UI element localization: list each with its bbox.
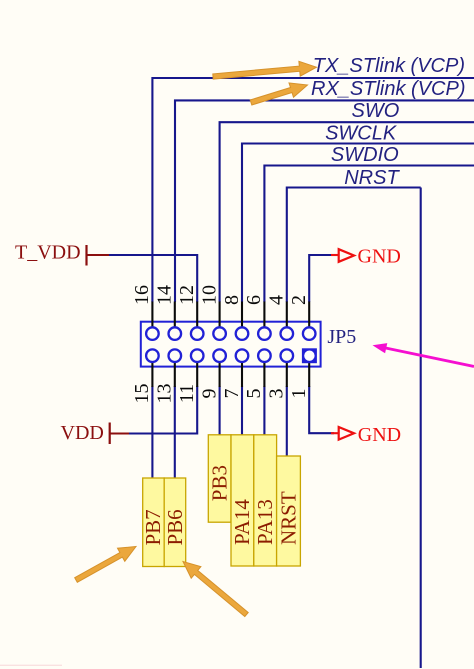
- svg-text:JP5: JP5: [327, 326, 356, 348]
- wire pin 1 to GND: [309, 386, 334, 433]
- port PB3: [208, 435, 232, 522]
- power port T_VDD: [15, 242, 87, 266]
- pin 2 stub: [308, 302, 310, 328]
- svg-text:TX_STlink (VCP): TX_STlink (VCP): [313, 55, 465, 77]
- pin 12 stub: [196, 302, 198, 328]
- annotation arrow to PB7 port: [75, 547, 136, 583]
- wire pin 3 to NRST port: [286, 386, 288, 457]
- pin 7 pad: [236, 349, 249, 362]
- wire VDD red segment: [110, 432, 129, 434]
- svg-text:9: 9: [198, 389, 220, 399]
- port PA13: [253, 435, 277, 566]
- wire T_VDD red segment: [87, 254, 110, 256]
- svg-text:SWO: SWO: [352, 100, 400, 122]
- svg-text:GND: GND: [358, 246, 401, 268]
- pin 10 stub: [219, 302, 221, 328]
- svg-text:14: 14: [154, 285, 176, 305]
- pin 14 pad: [169, 327, 182, 340]
- svg-text:13: 13: [154, 384, 176, 404]
- power port GND (upper): [331, 246, 401, 268]
- svg-text:PB7: PB7: [141, 509, 165, 545]
- faint sheet mark bottom-left: [0, 664, 62, 666]
- svg-text:11: 11: [176, 384, 198, 403]
- svg-text:PB3: PB3: [208, 465, 232, 501]
- pin 15 pad: [146, 349, 159, 362]
- pin 5 pad: [258, 349, 271, 362]
- pin 7 stub: [241, 362, 243, 388]
- svg-text:3: 3: [266, 389, 288, 399]
- annotation arrow (magenta) to JP5: [373, 343, 474, 368]
- svg-text:15: 15: [131, 384, 153, 404]
- port PB6: [163, 478, 187, 567]
- port NRST: [276, 456, 300, 566]
- pin 8 stub: [241, 302, 243, 328]
- pin 10 pad: [213, 327, 226, 340]
- wire net SWCLK to pin 8: [242, 144, 474, 303]
- wire net TX_STlink to pin 16: [152, 78, 474, 302]
- annotation arrow to PB6 port: [183, 562, 248, 617]
- pin 16 pad: [146, 327, 159, 340]
- pin 13 stub: [174, 362, 176, 388]
- pin 5 stub: [263, 362, 265, 388]
- pin 6 stub: [263, 302, 265, 328]
- svg-text:16: 16: [131, 285, 153, 305]
- pin 9 stub: [219, 362, 221, 388]
- pin 9 pad: [213, 349, 226, 362]
- wire pin 15 to PB7 port: [151, 386, 153, 479]
- pin 1 pad (square): [302, 348, 317, 363]
- wire net SWDIO to pin 6: [264, 166, 474, 303]
- wire net RX_STlink to pin 14: [175, 100, 474, 302]
- svg-text:PA13: PA13: [253, 499, 277, 545]
- power port GND (lower): [331, 424, 401, 446]
- wire NRST vertical to sheet bottom: [420, 188, 422, 669]
- wire pin 7 to PA14 port: [241, 386, 243, 436]
- svg-text:SWDIO: SWDIO: [331, 144, 399, 166]
- svg-text:RX_STlink (VCP): RX_STlink (VCP): [311, 78, 465, 100]
- power port VDD: [61, 422, 110, 444]
- svg-text:10: 10: [198, 285, 220, 305]
- pin 13 pad: [169, 349, 182, 362]
- svg-text:VDD: VDD: [61, 422, 104, 444]
- wire pin 5 to PA13 port: [263, 386, 265, 436]
- pin 2 pad: [303, 327, 316, 340]
- svg-text:NRST: NRST: [276, 491, 300, 545]
- pin 3 pad: [281, 349, 294, 362]
- wire net SWO to pin 10: [220, 122, 474, 302]
- port PA14: [230, 435, 254, 566]
- svg-text:1: 1: [288, 389, 310, 399]
- wire T_VDD to pin 12: [109, 255, 197, 302]
- pin 14 stub: [174, 302, 176, 328]
- svg-text:5: 5: [243, 389, 265, 399]
- pin 6 pad: [258, 327, 271, 340]
- svg-text:6: 6: [243, 295, 265, 305]
- svg-text:12: 12: [176, 285, 198, 305]
- pin 4 pad: [281, 327, 294, 340]
- wire pin 2 to GND: [309, 255, 334, 302]
- pin 15 stub: [151, 362, 153, 388]
- pin 3 stub: [286, 362, 288, 388]
- annotation arrow to RX label: [250, 83, 307, 105]
- svg-text:GND: GND: [358, 424, 401, 446]
- svg-text:T_VDD: T_VDD: [15, 242, 81, 264]
- annotation arrow to TX label: [213, 61, 317, 79]
- svg-text:8: 8: [221, 295, 243, 305]
- wire pin 9 to PB3 port: [219, 386, 221, 436]
- wire pin 13 to PB6 port: [174, 386, 176, 479]
- svg-text:PA14: PA14: [230, 499, 254, 545]
- svg-text:SWCLK: SWCLK: [325, 123, 398, 145]
- connector JP5 body: [141, 322, 321, 367]
- pin 11 pad: [191, 349, 204, 362]
- pin 1 stub: [308, 362, 310, 388]
- svg-text:PB6: PB6: [163, 509, 187, 545]
- wire VDD to pin 11: [129, 386, 197, 434]
- wire net NRST to pin 4: [287, 188, 421, 303]
- svg-text:NRST: NRST: [344, 167, 400, 189]
- pin 12 pad: [191, 327, 204, 340]
- svg-text:2: 2: [288, 295, 310, 305]
- pin 4 stub: [286, 302, 288, 328]
- port PB7: [141, 478, 165, 567]
- pin 8 pad: [236, 327, 249, 340]
- pin 11 stub: [196, 362, 198, 388]
- svg-text:7: 7: [221, 389, 243, 399]
- pin 16 stub: [151, 302, 153, 328]
- svg-text:4: 4: [266, 295, 288, 305]
